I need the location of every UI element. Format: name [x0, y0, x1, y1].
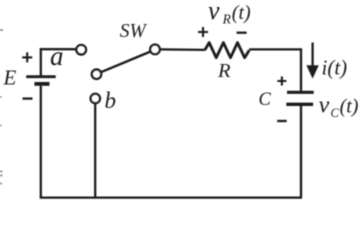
wire: bottom rail	[40, 196, 302, 198]
terminal b (circle)	[91, 94, 100, 103]
switch arm SW	[101, 52, 151, 73]
svg-text:a: a	[50, 41, 64, 71]
minus sign battery	[23, 97, 33, 99]
svg-text:i(t): i(t)	[322, 56, 348, 80]
wire: battery bottom down left side	[40, 86, 42, 198]
current arrow i(t) head	[306, 65, 318, 78]
svg-text:E: E	[3, 65, 17, 89]
left edge artifact mark 1	[0, 29, 3, 31]
svg-text:C: C	[331, 106, 340, 120]
svg-text:b: b	[105, 88, 117, 113]
svg-text:R: R	[217, 60, 231, 82]
svg-text:C: C	[259, 90, 272, 110]
wire: capacitor bottom down to bottom rail	[300, 106, 302, 198]
minus sign capacitor	[277, 120, 287, 122]
left edge artifact mark 4	[0, 171, 3, 173]
current arrow i(t) shaft	[311, 43, 313, 68]
wire: resistor to top-right corner, down to capacitor	[249, 49, 301, 91]
resistor R zigzag	[205, 43, 250, 58]
terminal a (circle)	[76, 45, 86, 55]
left edge artifact mark 5	[0, 175, 3, 177]
svg-text:(t): (t)	[232, 2, 251, 24]
plus sign capacitor	[277, 77, 286, 86]
left edge artifact mark 2	[0, 96, 2, 98]
switch SW circle	[150, 45, 160, 55]
minus sign resistor right	[237, 32, 247, 34]
svg-text:v: v	[319, 92, 330, 118]
battery E top plate	[26, 75, 56, 78]
left edge artifact mark 6	[0, 183, 2, 185]
plus sign resistor left	[198, 27, 208, 37]
left edge artifact mark 3	[0, 125, 2, 127]
capacitor C top plate	[287, 91, 314, 94]
svg-text:SW: SW	[120, 21, 148, 42]
wire: battery top to terminal a	[41, 49, 76, 76]
battery E bottom plate	[34, 82, 49, 86]
wire: terminal b down to bottom rail	[94, 104, 96, 198]
svg-text:v: v	[208, 0, 220, 25]
wire: SW circle to resistor	[160, 48, 205, 51]
switch pivot circle	[92, 70, 101, 79]
svg-text:(t): (t)	[340, 95, 359, 117]
svg-text:R: R	[222, 12, 232, 27]
capacitor C bottom plate	[286, 103, 313, 106]
plus sign battery	[22, 52, 32, 62]
